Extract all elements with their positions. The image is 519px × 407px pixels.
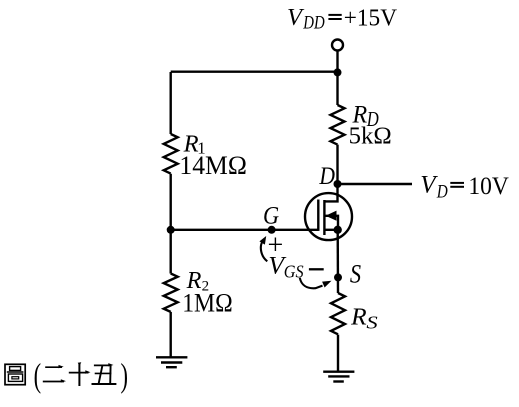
- caption figure 25 (CJK glyphs drawn as strokes): [5, 362, 116, 386]
- svg-text:1MΩ: 1MΩ: [182, 289, 233, 318]
- svg-text:S: S: [350, 260, 361, 289]
- svg-text:10V: 10V: [468, 173, 509, 200]
- wire VDD terminal to top junction: [336, 51, 338, 73]
- resistor RD: [331, 105, 345, 145]
- glyph Tu (figure): [5, 364, 25, 384]
- svg-text:): ): [121, 357, 129, 394]
- glyph shi (ten): [69, 362, 91, 386]
- mosfet body line: [326, 216, 339, 230]
- node D junction: [334, 180, 342, 188]
- svg-text:D: D: [436, 181, 448, 202]
- junction top right: [334, 68, 342, 76]
- arrow curved upper (VGS plus side): [259, 236, 267, 261]
- wire left rail mid: [169, 174, 171, 274]
- svg-text:D: D: [319, 161, 336, 190]
- glyph er (two): [43, 365, 66, 383]
- ground right: [323, 372, 354, 382]
- mosfet body arrowhead: [326, 211, 337, 221]
- wire left rail lower: [169, 312, 171, 357]
- wire right rail to RD: [336, 72, 338, 105]
- svg-text:14MΩ: 14MΩ: [179, 150, 247, 180]
- glyph wu (five): [92, 363, 117, 384]
- wire gate horizontal: [171, 229, 319, 231]
- arrow curved lower (VGS minus side to S): [300, 278, 332, 288]
- svg-text:R: R: [350, 304, 367, 330]
- mosfet source stub: [324, 229, 337, 231]
- svg-text:DD: DD: [302, 13, 325, 33]
- node G junction: [268, 226, 276, 234]
- node S junction: [334, 273, 342, 281]
- svg-text:5kΩ: 5kΩ: [349, 124, 392, 150]
- wire RD to node D: [336, 145, 338, 194]
- svg-text:G: G: [263, 200, 279, 229]
- terminal VDD (open circle): [332, 40, 343, 51]
- svg-text:+15V: +15V: [344, 5, 397, 32]
- mosfet Q1 body circle: [305, 193, 352, 240]
- resistor RS: [331, 293, 345, 334]
- mosfet drain stub: [324, 194, 337, 202]
- mosfet source-body junction: [334, 226, 342, 234]
- resistor R2: [164, 274, 178, 312]
- junction left gate branch: [167, 226, 175, 234]
- wire left rail upper: [169, 72, 171, 134]
- label minus sign: [309, 268, 324, 270]
- label VDD supply text: [287, 4, 397, 33]
- svg-text:S: S: [366, 312, 378, 332]
- mosfet channel bar: [323, 200, 325, 235]
- resistor R1: [164, 134, 178, 174]
- wire drain to VD label: [338, 183, 413, 185]
- mosfet gate bar: [317, 200, 319, 231]
- wire mosfet source down to node S: [337, 230, 340, 293]
- wire top horizontal: [171, 70, 338, 72]
- svg-text:(: (: [34, 357, 42, 394]
- wire RS to ground: [337, 335, 339, 372]
- ground left: [156, 357, 187, 367]
